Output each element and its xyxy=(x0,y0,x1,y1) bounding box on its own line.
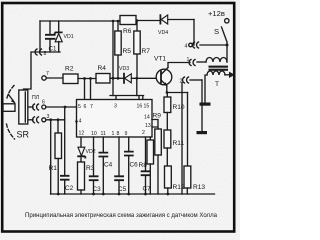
wire bus drop to IC pin3 xyxy=(112,21,114,96)
svg-text:ПЛ: ПЛ xyxy=(32,95,39,101)
svg-text:15: 15 xyxy=(144,104,150,110)
wire emitter node xyxy=(167,86,188,93)
svg-text:6: 6 xyxy=(84,104,87,110)
zener diode VD1 xyxy=(58,21,60,52)
resistor R10 xyxy=(164,97,171,113)
svg-text:+12в: +12в xyxy=(208,9,225,18)
capacitor C2 xyxy=(64,180,66,194)
capacitor C7 xyxy=(145,137,147,194)
capacitor C3 xyxy=(93,137,95,194)
svg-text:R5: R5 xyxy=(123,48,132,55)
svg-text:11: 11 xyxy=(101,131,106,137)
svg-text:R4: R4 xyxy=(98,65,107,72)
resistor R3 xyxy=(78,162,85,190)
resistor R2 xyxy=(63,74,78,84)
svg-text:VD3: VD3 xyxy=(119,66,129,72)
wire collector up xyxy=(168,63,190,68)
svg-text:S: S xyxy=(214,27,219,36)
svg-text:VD1: VD1 xyxy=(64,34,74,40)
wire R2 to R4 xyxy=(78,78,96,80)
connector pin 8 xyxy=(35,49,41,55)
wire VD4 down to connector 4 xyxy=(193,20,195,46)
diode VD3 xyxy=(125,74,132,83)
wire R1 to bus xyxy=(57,159,59,195)
svg-text:SR: SR xyxy=(17,130,30,140)
svg-text:8: 8 xyxy=(117,131,120,137)
coil T secondary xyxy=(207,71,225,75)
node dots R2-R4 xyxy=(83,77,86,80)
resistor R9 feed pins 13,14 xyxy=(152,120,158,130)
svg-text:R6: R6 xyxy=(123,28,132,35)
svg-text:1: 1 xyxy=(112,131,115,137)
svg-text:R7: R7 xyxy=(142,48,151,55)
wire VD3 to VT1 base xyxy=(132,77,162,79)
svg-text:10: 10 xyxy=(91,131,97,137)
node junction xyxy=(135,77,138,80)
diode VD4 xyxy=(161,15,168,24)
wire pin6row to IC pin5 xyxy=(46,106,77,108)
svg-text:7: 7 xyxy=(90,104,93,110)
svg-text:C2: C2 xyxy=(65,185,74,192)
svg-text:T: T xyxy=(215,81,219,88)
svg-text:3: 3 xyxy=(47,114,50,120)
wire to R13 xyxy=(187,93,189,167)
svg-text:R1: R1 xyxy=(49,165,58,172)
wire to coil primary xyxy=(197,61,206,63)
svg-text:R2: R2 xyxy=(65,66,74,73)
magnet vane box xyxy=(3,104,15,112)
node 7 terminal xyxy=(42,76,46,80)
wire C1/VD1 row xyxy=(24,52,61,89)
svg-text:14: 14 xyxy=(144,115,150,121)
bottom bus xyxy=(51,193,215,195)
wire stub with bar xyxy=(57,120,59,133)
svg-text:R9: R9 xyxy=(153,113,162,120)
wire conn2 left stub down to bus xyxy=(181,83,183,195)
resistor R6 xyxy=(120,16,136,25)
resistor R4 xyxy=(96,74,110,84)
svg-text:VD2: VD2 xyxy=(86,149,96,155)
IC box U1 xyxy=(77,100,153,138)
ignition coil T primary xyxy=(206,58,227,63)
svg-text:C1: C1 xyxy=(49,46,57,53)
wire R12 to bus xyxy=(167,188,169,194)
wire HV output arrow xyxy=(225,74,229,76)
wire pin16 drop xyxy=(136,78,138,95)
ground bar coil xyxy=(200,103,211,106)
svg-text:R11: R11 xyxy=(173,140,185,147)
svg-text:12: 12 xyxy=(79,131,85,137)
svg-text:R13: R13 xyxy=(193,184,205,191)
wire pin3 row xyxy=(46,119,65,121)
svg-text:VD4: VD4 xyxy=(158,30,168,36)
svg-text:16: 16 xyxy=(137,104,143,110)
svg-text:Принципиальная электрическая с: Принципиальная электрическая схема зажиг… xyxy=(25,212,217,219)
border frame xyxy=(2,3,234,232)
arrow into sensor xyxy=(9,95,15,103)
resistor R5 xyxy=(117,21,119,78)
svg-text:C6: C6 xyxy=(130,161,139,168)
svg-text:9: 9 xyxy=(125,131,128,137)
zener diode VD2 xyxy=(80,137,82,147)
bus junction dots xyxy=(57,193,60,196)
wire top bus xyxy=(40,20,194,22)
Hall sensor SR xyxy=(19,90,28,124)
capacitor C6 xyxy=(128,137,130,194)
wire emitter to R10 xyxy=(166,93,168,98)
wire conn2 down to bar xyxy=(201,80,203,131)
capacitor C5 xyxy=(118,137,120,194)
resistor R1 xyxy=(55,133,62,159)
resistor R11 xyxy=(164,130,171,148)
capacitor C4 xyxy=(102,137,104,194)
terminal bar xyxy=(197,131,208,134)
svg-text:4: 4 xyxy=(79,119,82,125)
resistor R7 xyxy=(136,21,138,79)
svg-text:8: 8 xyxy=(44,51,47,57)
node junction xyxy=(112,77,115,80)
svg-text:5: 5 xyxy=(78,104,81,110)
svg-text:3: 3 xyxy=(114,104,117,110)
svg-text:7: 7 xyxy=(46,71,49,77)
dashed rotor arcs xyxy=(7,86,15,101)
wire IC top pin header xyxy=(110,96,144,100)
svg-text:C5: C5 xyxy=(118,186,127,193)
wire pins 6,7 stubs xyxy=(85,79,91,100)
wire node7 to R2 xyxy=(46,77,63,79)
coil core xyxy=(209,66,229,68)
node dots on bus xyxy=(112,20,115,23)
svg-text:R10: R10 xyxy=(173,104,185,111)
capacitor C1 xyxy=(49,21,51,52)
resistor R13 xyxy=(184,166,191,188)
wire pin4 stub xyxy=(64,107,66,176)
resistor R12 xyxy=(165,166,172,188)
svg-text:2: 2 xyxy=(142,130,145,136)
svg-text:R8: R8 xyxy=(139,162,148,169)
wire R10-R11 xyxy=(166,113,168,131)
wire secondary left to ground xyxy=(205,75,207,103)
connector pin 3 row xyxy=(28,119,33,121)
svg-text:13: 13 xyxy=(145,123,151,129)
resistor R8 xyxy=(149,137,151,140)
svg-text:4: 4 xyxy=(185,44,188,50)
wire R11-R12 xyxy=(166,148,168,166)
svg-text:C3: C3 xyxy=(93,186,102,193)
wire vertical from bus to C1 row xyxy=(39,21,41,52)
wire primary right to switch node xyxy=(226,45,228,62)
wire R13 to bus xyxy=(186,188,188,194)
wire VD2 to R3 xyxy=(80,158,82,162)
wire R4 to VD3 xyxy=(110,77,124,79)
svg-text:VT1: VT1 xyxy=(154,56,166,63)
svg-text:C4: C4 xyxy=(104,161,113,168)
wire connector4 to switch node xyxy=(200,44,227,46)
svg-text:R12: R12 xyxy=(173,184,185,191)
wire ground stub left xyxy=(50,120,52,194)
